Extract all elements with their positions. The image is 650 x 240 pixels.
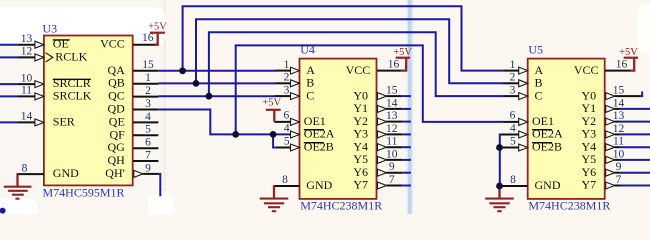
- svg-text:M74HC595M1R: M74HC595M1R: [43, 185, 125, 199]
- junction QC/railC: [206, 93, 213, 100]
- U4 pin 2 stub: [275, 82, 290, 84]
- svg-text:16: 16: [388, 58, 400, 70]
- svg-text:OE2B: OE2B: [532, 140, 562, 154]
- U5 pin 4 stub: [500, 134, 518, 136]
- pin name Y5 (U4): [353, 152, 368, 166]
- U3 pin 6: [133, 147, 158, 149]
- vertical light-blue grid line: [406, 0, 413, 214]
- U5 pin 13 number: [613, 110, 625, 122]
- svg-text:11: 11: [386, 136, 397, 148]
- U4 pin 5 number: [284, 136, 290, 148]
- U5 pin 12 (Y3): [606, 131, 620, 138]
- U3 pin 2 number: [145, 85, 151, 97]
- wire rail C: QC junction up and over to U5 pin3: [209, 32, 505, 96]
- U4 pin 2 arrow: [291, 80, 300, 87]
- pin name RCLK: [55, 49, 87, 63]
- U3 pin 13: [0, 41, 44, 48]
- pin name GND: [53, 166, 79, 180]
- svg-text:6: 6: [145, 137, 151, 149]
- pin name QH': [105, 166, 125, 180]
- svg-text:7: 7: [616, 174, 622, 186]
- pin name A (U4): [306, 63, 315, 77]
- IC U5 body: [528, 59, 605, 199]
- U5 pin 13 (Y2): [606, 118, 620, 125]
- U3 pin 9: [134, 170, 159, 177]
- svg-text:5: 5: [284, 136, 290, 148]
- IC U3 body: [44, 36, 133, 186]
- pin name Y3 (U5): [582, 127, 597, 141]
- svg-text:SER: SER: [53, 114, 75, 128]
- pin name Y6 (U5): [582, 165, 597, 179]
- pin name Y7 (U5): [582, 178, 597, 192]
- U4 pin 9 number: [389, 161, 395, 173]
- pin name Y4 (U5): [582, 139, 597, 153]
- pin name Y1 (U4): [353, 101, 368, 115]
- svg-text:15: 15: [613, 85, 625, 97]
- U3 pin 9 number: [145, 162, 151, 174]
- pin name SRCLR (overline): [53, 76, 91, 90]
- pin name Y2 (U4): [353, 114, 368, 128]
- pin name VCC (U5): [574, 63, 599, 77]
- U5 pin 12 number: [613, 123, 625, 135]
- pin name Y0 (U5): [582, 88, 597, 102]
- svg-text:3: 3: [284, 84, 290, 96]
- svg-text:M74HC238M1R: M74HC238M1R: [528, 198, 610, 212]
- U4 pin 14 number: [386, 97, 398, 109]
- svg-text:QH': QH': [105, 166, 125, 180]
- svg-text:8: 8: [282, 174, 288, 186]
- U4 pin 9 (Y6): [378, 169, 403, 176]
- pin name QE: [109, 114, 125, 128]
- pin name Y1 (U5): [582, 101, 597, 115]
- U3 pin 11: [0, 93, 44, 100]
- svg-text:11: 11: [613, 136, 624, 148]
- svg-text:+5V: +5V: [393, 47, 412, 58]
- U4 pin 6 number: [284, 110, 290, 122]
- U3 pin 15: [133, 70, 158, 72]
- svg-text:VCC: VCC: [100, 37, 125, 51]
- U4 pin 3 arrow: [291, 93, 300, 100]
- U3 pin 7: [133, 160, 158, 162]
- pin name QA: [107, 63, 125, 77]
- wire rail QD-enable: OE2A line up and over to U5 pin6 (OE1): [236, 45, 505, 134]
- svg-text:4: 4: [145, 111, 151, 123]
- U4 pin 15 number: [386, 85, 398, 97]
- U3 pin 14 number: [21, 111, 33, 123]
- U5 pin 7 number: [616, 174, 622, 186]
- svg-text:13: 13: [613, 110, 625, 122]
- svg-text:U3: U3: [43, 22, 58, 36]
- U5 pin 1 stub: [503, 70, 518, 72]
- wire QB: U3 pin1 to U4 pin2: [158, 82, 276, 84]
- U5 pin 16 (VCC) stub: [605, 70, 630, 72]
- ground symbol at U3 pin 8: [4, 173, 32, 199]
- pin name QG: [107, 140, 125, 154]
- IC U4 body: [300, 59, 377, 199]
- svg-text:OE2B: OE2B: [304, 140, 334, 154]
- pin name Y4 (U4): [353, 139, 368, 153]
- pin name C (U4): [306, 88, 314, 102]
- svg-text:C: C: [535, 88, 543, 102]
- pin name QB: [108, 76, 125, 90]
- U5 pin 6 (OE1) stub: [503, 121, 518, 123]
- U3 pin 10: [0, 81, 44, 88]
- pin name Y7 (U4): [353, 178, 368, 192]
- svg-text:8: 8: [510, 174, 516, 186]
- svg-text:8: 8: [22, 162, 28, 174]
- U5 pin 8 number: [510, 174, 516, 186]
- U4 pin 1 number: [284, 59, 290, 71]
- U5 pin 11 (Y4): [606, 144, 620, 151]
- value label M74HC238M1R (U5): [528, 198, 610, 212]
- svg-text:12: 12: [613, 123, 625, 135]
- white highlight blob bottom-left: [0, 198, 38, 228]
- svg-text:1: 1: [145, 72, 151, 84]
- U4 pin 4 number: [284, 123, 290, 135]
- pin name GND (U4): [306, 178, 332, 192]
- designator U5: [528, 42, 543, 56]
- svg-text:3: 3: [510, 84, 516, 96]
- svg-text:U5: U5: [528, 42, 543, 56]
- svg-text:GND: GND: [53, 166, 79, 180]
- svg-text:9: 9: [145, 162, 151, 174]
- +5V power symbol at U3 VCC: [148, 22, 167, 45]
- U3 pin 4 number: [145, 111, 151, 123]
- U4 pin 7 number: [389, 174, 395, 186]
- U3 pin 7 number: [145, 149, 151, 161]
- U4 pin 8 (GND) stub: [274, 185, 300, 187]
- U4 pin 10 number: [386, 148, 398, 160]
- wire stubs U4 outputs to grid line: [402, 95, 411, 97]
- svg-text:1: 1: [284, 59, 290, 71]
- U4 pin 12 (Y3): [378, 131, 403, 138]
- pin name QD: [107, 102, 125, 116]
- value label M74HC238M1R (U4): [300, 198, 382, 212]
- U4 pin 12 number: [386, 123, 398, 135]
- U3 pin 16 number: [142, 32, 154, 44]
- pin name GND (U5): [535, 178, 561, 192]
- U5 pin 10 (Y5): [606, 156, 620, 163]
- svg-text:QC: QC: [108, 89, 125, 103]
- U4 pin 6 (OE1) stub: [274, 121, 290, 123]
- svg-text:+5V: +5V: [262, 98, 281, 109]
- U4 pin 13 number: [386, 110, 398, 122]
- svg-text:11: 11: [21, 85, 32, 97]
- U5 pin 3 stub: [503, 95, 518, 97]
- svg-text:M74HC238M1R: M74HC238M1R: [300, 198, 382, 212]
- white node circle at QH wire end: [154, 196, 167, 209]
- U5 pin 11 number: [613, 136, 624, 148]
- pin name OE2A (overline) (U5): [532, 127, 563, 141]
- ground symbol at U4 pin 8: [260, 185, 289, 211]
- pin name Y2 (U5): [582, 114, 597, 128]
- svg-text:VCC: VCC: [346, 63, 371, 77]
- svg-text:2: 2: [510, 72, 516, 84]
- U5 pin 9 (Y6): [606, 169, 620, 176]
- pin name B (U4): [306, 76, 314, 90]
- svg-text:C: C: [306, 88, 314, 102]
- pin name QC: [108, 89, 125, 103]
- svg-text:16: 16: [616, 58, 628, 70]
- pin name Y5 (U5): [582, 152, 597, 166]
- junction U4 OE2A/OE2B: [270, 131, 277, 138]
- U5 pin 2 number: [510, 72, 516, 84]
- U3 pin 5: [133, 134, 158, 136]
- U4 pin 3 number: [284, 84, 290, 96]
- U4 pin 8 number: [282, 174, 288, 186]
- U3 pin 5 number: [145, 124, 151, 136]
- U4 pin 5 arrow: [291, 144, 300, 151]
- U4 pin 5 stub: [276, 147, 290, 149]
- U3 pin 10 number: [21, 72, 33, 84]
- pin name OE2A (overline) (U4): [304, 127, 335, 141]
- svg-text:QH: QH: [107, 153, 125, 167]
- U4 pin 16 number: [388, 58, 400, 70]
- pin name SRCLK: [53, 88, 92, 102]
- U4 pin 16 (VCC) stub: [377, 70, 402, 72]
- junction U5 OE2B/GND tie: [496, 144, 503, 151]
- U3 pin 1: [133, 83, 158, 85]
- pin name QH: [107, 153, 125, 167]
- U5 pin 14 (Y1): [606, 105, 620, 112]
- U5 pin 6 arrow: [519, 118, 528, 125]
- U3 pin 6 number: [145, 137, 151, 149]
- U5 pin 5 number: [510, 136, 516, 148]
- svg-text:16: 16: [142, 32, 154, 44]
- svg-text:13: 13: [386, 110, 398, 122]
- U3 pin 8 (GND): [18, 173, 44, 175]
- U4 pin 1 arrow: [291, 67, 300, 74]
- svg-text:GND: GND: [306, 178, 332, 192]
- U3 pin 3: [133, 109, 158, 111]
- U5 pin 2 stub: [503, 82, 518, 84]
- svg-text:7: 7: [389, 174, 395, 186]
- svg-text:15: 15: [142, 59, 154, 71]
- white highlight blob top-right: [637, 3, 650, 55]
- U3 pin 3 number: [145, 98, 151, 110]
- U4 pin 13 (Y2): [378, 118, 403, 125]
- white highlight blob below QH wire: [148, 191, 174, 221]
- U3 pin 14: [0, 119, 44, 126]
- pin name OE (overline): [53, 37, 70, 51]
- U5 pin 2 arrow: [519, 80, 528, 87]
- U4 pin 2 number: [284, 72, 290, 84]
- U4 pin 14 (Y1): [378, 105, 403, 112]
- ground symbol at U5 pin 8: [485, 186, 514, 211]
- U3 pin 16 (VCC): [133, 44, 154, 46]
- value label M74HC595M1R: [43, 185, 125, 199]
- svg-text:2: 2: [284, 72, 290, 84]
- U4 pin 15 (Y0): [378, 93, 403, 100]
- svg-text:OE2A: OE2A: [304, 127, 335, 141]
- U5 pin 3 arrow: [519, 93, 528, 100]
- pin name B (U5): [535, 76, 543, 90]
- U3 pin 12 number: [21, 46, 33, 58]
- U4 pin 11 number: [386, 136, 397, 148]
- U3 pin 1 number: [145, 72, 151, 84]
- svg-text:7: 7: [145, 149, 151, 161]
- svg-text:QE: QE: [109, 114, 125, 128]
- +5V power symbol at U4 OE1: [262, 98, 281, 122]
- U3 pin 2: [133, 96, 158, 98]
- svg-text:4: 4: [284, 123, 290, 135]
- U3 pin 15 number: [142, 59, 154, 71]
- wire QA: U3 pin15 to U4 pin1: [158, 70, 276, 72]
- U5 pin 9 number: [616, 161, 622, 173]
- stray blue dot bottom-left: [0, 208, 6, 214]
- wire QC: U3 pin2 to U4 pin3: [158, 95, 276, 97]
- white highlight blob top-left: [0, 7, 166, 45]
- U4 pin 3 stub: [275, 95, 290, 97]
- U4 pin 1 stub: [275, 70, 290, 72]
- U5 pin 6 number: [510, 110, 516, 122]
- svg-text:10: 10: [613, 148, 625, 160]
- U4 pin 11 (Y4): [378, 144, 403, 151]
- svg-text:14: 14: [21, 111, 33, 123]
- U5 pin 4 number: [510, 123, 516, 135]
- U5 pin 15 number: [613, 85, 625, 97]
- svg-text:GND: GND: [535, 178, 561, 192]
- svg-text:6: 6: [284, 110, 290, 122]
- pin name Y6 (U4): [353, 165, 368, 179]
- U4 pin 4 stub: [289, 134, 290, 136]
- U5 pin 5 stub: [500, 147, 519, 149]
- junction QA/railA: [179, 67, 186, 74]
- svg-text:5: 5: [510, 136, 516, 148]
- U5 pin 8 (GND) stub: [500, 185, 528, 187]
- U5 pin 1 number: [510, 59, 516, 71]
- svg-text:QB: QB: [108, 76, 125, 90]
- U3 pin 12: [0, 53, 53, 62]
- svg-text:9: 9: [389, 161, 395, 173]
- +5V power symbol at U5 VCC: [619, 47, 638, 71]
- pin name Y3 (U4): [353, 127, 368, 141]
- junction QB/railB: [193, 80, 200, 87]
- wire U5 OE2A corner down to GND tie: [499, 135, 502, 187]
- pin name VCC (U4): [346, 63, 371, 77]
- pin name OE2B (overline) (U5): [532, 140, 562, 154]
- U3 pin 11 number: [21, 85, 32, 97]
- svg-text:QD: QD: [107, 102, 125, 116]
- svg-text:QA: QA: [107, 63, 125, 77]
- junction U5 GND pin: [496, 183, 503, 190]
- U5 pin 16 number: [616, 58, 628, 70]
- U3 pin 8 number: [22, 162, 28, 174]
- pin name OE2B (overline) (U4): [304, 140, 334, 154]
- svg-text:Y7: Y7: [353, 178, 368, 192]
- wire U4 OE2A to OE2B tie: [273, 134, 277, 147]
- wire U5 Y0 with up-hook: [640, 91, 642, 96]
- svg-text:+5V: +5V: [619, 47, 638, 58]
- svg-text:3: 3: [145, 98, 151, 110]
- svg-text:6: 6: [510, 110, 516, 122]
- U4 pin 7 (Y7): [378, 182, 403, 189]
- wires U5 outputs to right edge: [620, 108, 650, 110]
- U4 pin 10 (Y5): [378, 156, 403, 163]
- svg-text:OE2A: OE2A: [532, 127, 563, 141]
- U5 pin 3 number: [510, 84, 516, 96]
- U5 pin 4 arrow: [519, 131, 528, 138]
- U3 pin 4: [133, 121, 158, 123]
- wire rail B: QB junction up and over to U5 pin2: [196, 19, 505, 83]
- svg-text:1: 1: [510, 59, 516, 71]
- svg-text:12: 12: [21, 46, 33, 58]
- U4 pin 6 arrow: [291, 118, 300, 125]
- U5 pin 7 (Y7): [606, 182, 620, 189]
- U5 pin 5 arrow: [519, 144, 528, 151]
- pin name VCC: [100, 37, 125, 51]
- U5 pin 1 arrow: [519, 67, 528, 74]
- svg-text:12: 12: [386, 123, 398, 135]
- pin name A (U5): [535, 63, 544, 77]
- U5 pin 14 number: [613, 97, 625, 109]
- svg-text:10: 10: [21, 72, 33, 84]
- svg-text:9: 9: [616, 161, 622, 173]
- designator U4: [300, 42, 315, 56]
- svg-text:QF: QF: [109, 127, 125, 141]
- U5 pin 10 number: [613, 148, 625, 160]
- svg-text:15: 15: [386, 85, 398, 97]
- pin name OE1 (U4): [304, 114, 326, 128]
- junction QD/rail-enable: [232, 131, 239, 138]
- faint vertical seam: [164, 0, 165, 214]
- left-region tint: [0, 0, 164, 214]
- pin name C (U5): [535, 88, 543, 102]
- svg-text:14: 14: [386, 97, 398, 109]
- pin name QF: [109, 127, 125, 141]
- svg-text:13: 13: [21, 33, 33, 45]
- svg-text:U4: U4: [300, 42, 315, 56]
- pin name OE1 (U5): [532, 114, 554, 128]
- svg-text:RCLK: RCLK: [55, 49, 87, 63]
- svg-text:VCC: VCC: [574, 63, 599, 77]
- svg-text:Y7: Y7: [582, 178, 597, 192]
- svg-text:5: 5: [145, 124, 151, 136]
- svg-text:SRCLK: SRCLK: [53, 88, 92, 102]
- wire rail A: QA junction up and over to U5 pin1: [183, 6, 505, 71]
- U4 pin 4 arrow: [291, 131, 300, 138]
- svg-text:14: 14: [613, 97, 625, 109]
- wire QD: U3 pin3 down to U4 pin4 (OE2A): [158, 110, 290, 135]
- wire U3 QH pin9 down: [158, 174, 160, 200]
- pin name Y0 (U4): [353, 88, 368, 102]
- U3 pin 13 number: [21, 33, 33, 45]
- +5V power symbol at U4 VCC: [393, 47, 412, 71]
- svg-text:4: 4: [510, 123, 516, 135]
- svg-text:2: 2: [145, 85, 151, 97]
- designator U3: [43, 22, 58, 36]
- U5 pin 15 (Y0): [606, 93, 641, 100]
- svg-text:10: 10: [386, 148, 398, 160]
- pin name SER: [53, 114, 75, 128]
